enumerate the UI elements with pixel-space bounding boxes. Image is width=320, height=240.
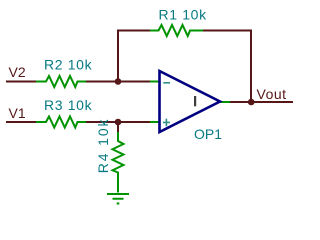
svg-text:V2: V2 [9,64,26,80]
svg-text:Vout: Vout [257,86,287,102]
svg-text:OP1: OP1 [194,126,222,142]
svg-text:R1 10k: R1 10k [159,7,208,23]
svg-text:R3 10k: R3 10k [44,97,93,113]
svg-text:V1: V1 [9,105,26,121]
svg-text:R4 10k: R4 10k [95,118,111,174]
svg-text:R2 10k: R2 10k [44,57,93,73]
